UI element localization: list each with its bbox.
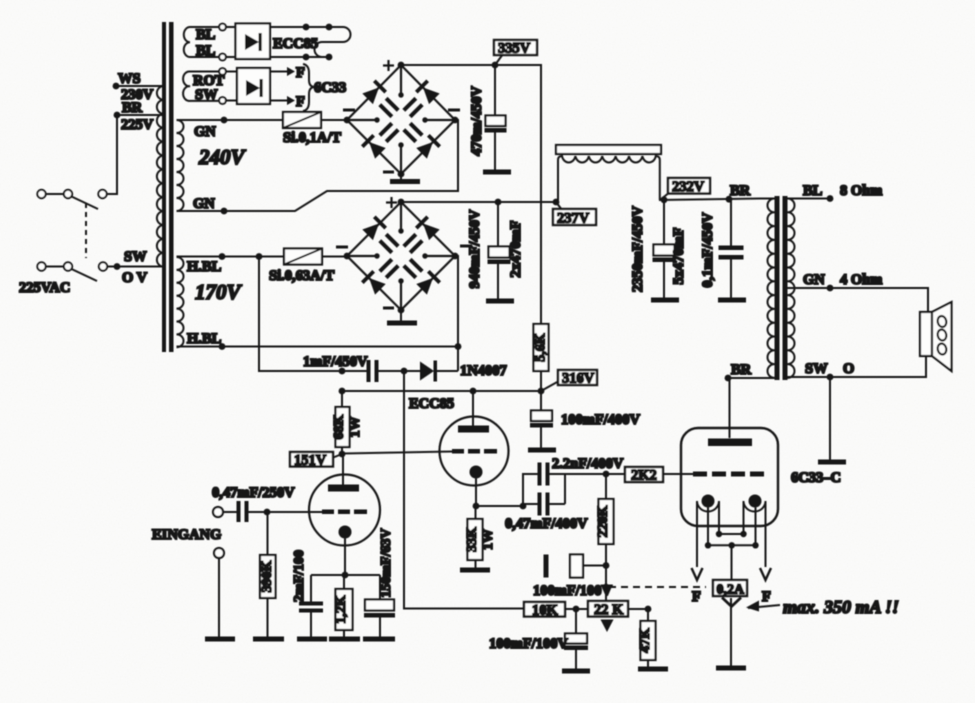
svg-text:100mF/100V: 100mF/100V [533,583,612,599]
heater winding BL/BL [184,27,222,59]
6C33 grid [663,472,764,477]
cathode leads [708,508,756,546]
svg-text:232V: 232V [672,179,705,195]
svg-text:BR: BR [731,362,752,378]
wire heater top [270,26,343,28]
svg-text:237V: 237V [557,211,590,227]
svg-text:2mF/100: 2mF/100 [292,550,307,602]
node 68K top [339,388,346,395]
capacitor 0,1mF/450V [700,200,744,299]
svg-text:2x470mF: 2x470mF [508,220,524,277]
heater feed arrow F bottom [270,94,305,110]
node [573,606,580,613]
svg-text:940mF/450V: 940mF/450V [467,209,483,288]
capacitor 2.2nF/400V [538,456,624,486]
terminal BL top [219,24,226,31]
transformer T1 primary winding 230V [157,86,164,267]
terminal ROT [219,68,226,75]
svg-text:F: F [296,65,305,81]
svg-text:1mF/450V: 1mF/450V [303,354,368,370]
svg-text:6C33: 6C33 [314,80,346,96]
svg-text:F: F [692,589,701,605]
ground input [205,637,235,642]
tap WS [113,71,163,103]
wire SW to ground [829,377,831,460]
capacitor 940mF/450V 2x470mF [467,202,524,299]
wire [226,26,236,28]
svg-text:0,1mF/450V: 0,1mF/450V [700,212,716,288]
resistor 390K [260,512,276,637]
ground 390K [253,637,284,642]
node [326,54,333,61]
node BR top [726,196,733,203]
6C33 cathode 1 [702,495,715,508]
svg-text:GN: GN [193,196,215,212]
svg-text:max. 350 mA !!: max. 350 mA !! [783,597,899,617]
mains switch S1 pole 1 [37,190,106,209]
tap BR bottom [725,362,775,381]
node [520,503,527,510]
svg-text:240V: 240V [198,145,247,169]
wire cathode rail V1a [311,574,380,576]
fuse F2 Si.0,63A/T [269,249,335,285]
label box 335V [494,40,537,65]
ground 940mF cap [486,299,514,304]
wire 237V rail [401,201,556,203]
tap GN top [177,117,284,140]
ground 100mF/400V [528,448,556,453]
svg-text:2.2nF/400V: 2.2nF/400V [552,456,624,472]
6C33 anode [708,439,752,447]
wire SW to speaker [830,356,926,377]
svg-text:335V: 335V [498,41,531,57]
ground 33K [460,568,490,573]
wire [226,71,237,73]
triode V1b envelope [440,417,509,486]
resistor 5,6K [534,324,549,391]
svg-text:BL: BL [196,43,216,59]
annotation arrow max current [746,597,899,617]
potentiometer 22K [588,601,628,632]
wire caps to grid rail [550,474,566,504]
wire to triode2 grid [342,452,452,454]
ECC85 heater jumper loop [315,27,351,57]
ground 0,1mF cap [718,298,746,303]
wire bias line [404,371,524,609]
wire cathode to coupling caps [476,505,523,507]
triode V1a grid [322,510,367,515]
triode V1b anode [458,391,489,433]
svg-text:F: F [762,589,771,605]
bridge rectifier B2 [336,197,472,313]
tap GN bottom [177,196,228,214]
resistor 1,2K [334,575,353,637]
svg-text:220K: 220K [596,505,611,537]
svg-text:316V: 316V [562,371,595,387]
node [342,572,349,579]
capacitor 470m/450V [469,65,507,170]
node 151V [339,451,346,458]
wire 4 Ohm to speaker [830,288,928,312]
wire rail to T2 primary top [760,198,775,200]
6C33 heater 1 [697,501,719,567]
svg-text:Si.0,1A/T: Si.0,1A/T [283,130,341,146]
svg-text:0,47mF/400V: 0,47mF/400V [505,516,588,532]
svg-text:GN: GN [803,272,825,288]
node triode2 anode [470,388,477,395]
node [661,196,668,203]
tap SW 0V [107,249,163,286]
choke L1 [556,145,661,202]
svg-text:Si.0,63A/T: Si.0,63A/T [269,268,335,284]
ground 100mF/100V lower [562,669,590,674]
label box 316V [541,370,597,391]
wire fuse2 node down to bias cap [259,257,367,372]
svg-text:6C33–C: 6C33–C [791,470,841,486]
ground 2mF [297,637,327,642]
svg-text:BL: BL [196,27,216,43]
svg-text:390K: 390K [260,560,275,592]
wire [379,370,421,372]
svg-text:1W: 1W [348,417,363,438]
svg-text:0,2A: 0,2A [717,583,746,598]
svg-text:2K2: 2K2 [631,468,657,484]
wire [226,100,237,102]
node [264,509,271,516]
heater feed arrow F top [270,65,305,81]
wire input gnd terminal down [218,558,220,638]
wire 232V rail [659,199,760,201]
heater arrow F left [692,568,703,605]
heater rectifier D2 (ECC85) [236,24,271,60]
svg-text:68K: 68K [332,414,347,439]
wire fuse to ground [730,598,732,666]
svg-text:47K: 47K [638,628,653,653]
svg-text:BL: BL [803,183,823,199]
svg-text:H.BL: H.BL [187,331,222,347]
svg-text:22 K: 22 K [594,602,624,618]
wire fuse2 to bridge2 [322,256,347,258]
capacitor 2mF/100 [292,550,323,637]
node cathode V1b [473,503,480,510]
resistor 2K2 [625,467,681,484]
svg-text:100mF/100V: 100mF/100V [489,636,568,652]
tap H.BL bottom [177,331,226,350]
ground 1,2K [329,637,360,642]
output transformer T2 core [775,196,788,380]
tap GN 4 Ohm [788,272,883,291]
node fuse2 input [256,253,263,260]
diode 1N4007 [420,361,507,382]
svg-text:0,47mF/250V: 0,47mF/250V [212,485,295,501]
resistor 47K [638,621,656,667]
node [339,368,346,375]
tap SW O [788,361,855,380]
bridge rectifier B1 [343,60,460,177]
svg-text:225VAC: 225VAC [19,280,70,296]
capacitor 0,47mF/400V [505,493,588,533]
svg-text:O: O [843,361,854,377]
tap BR 225V [114,100,163,133]
wire BR to 6C33 anode [729,378,731,438]
ground bridge B2 [387,310,417,326]
capacitor 0,47mF/250V [212,485,295,522]
ground 47K [638,667,668,672]
svg-text:33K: 33K [465,527,480,552]
T2 primary winding [767,199,774,378]
wire to grid [249,511,323,513]
wire fuse to bridge [321,119,347,121]
label box 237V [553,202,596,227]
svg-text:170V: 170V [195,280,243,304]
input terminal EINGANG hot [213,507,223,517]
resistor 220K [596,474,614,601]
node [495,199,502,206]
svg-text:ECC85: ECC85 [409,396,454,412]
node bias takeoff [401,368,408,375]
svg-text:BR: BR [122,100,143,116]
svg-text:BR: BR [730,183,751,199]
capacitor 100mF/100V upper [533,555,612,600]
svg-text:1W: 1W [481,529,496,550]
svg-text:SW: SW [124,249,147,265]
tube 6C33-C envelope [681,428,778,526]
6C33 heater 2 [744,501,766,567]
wire bridge B2 right to H.BL bottom [455,256,458,371]
capacitor 2350mF/450V 5x470mF [630,200,687,298]
node dashed [603,584,610,591]
mains switch S1 pole 2 [37,262,107,281]
heater rectifier D3 (6C33) [237,68,270,104]
resistor 10K [524,602,588,619]
tap BL 8 Ohm [788,183,883,202]
svg-text:150mF/63V: 150mF/63V [379,528,394,597]
input terminal EINGANG gnd [214,548,224,558]
resistor 33K 1W [465,506,496,568]
heater winding ROT/SW [183,71,225,103]
ground 6C33 cathode [716,666,746,671]
switch mechanical link [85,203,87,258]
svg-text:1N4007: 1N4007 [460,363,507,379]
label box 151V [290,452,342,469]
triode V1b grid [452,449,497,454]
transformer T1 secondary 170V winding [177,257,243,347]
capacitor 100mF/400V [530,391,640,448]
triode V1a anode [328,454,359,492]
wire top rail 335V [401,65,541,324]
tap H.BL top [177,253,285,275]
svg-text:WS: WS [118,71,141,87]
node [303,54,310,61]
wire heater bottom [270,56,322,58]
6C33 cathode 2 [749,495,762,508]
brace 6C33 [303,64,346,111]
svg-text:SW: SW [195,87,218,103]
node 335V [492,62,499,69]
svg-text:SW: SW [805,361,828,377]
triode V1a envelope [309,475,380,546]
svg-text:8 Ohm: 8 Ohm [840,183,882,199]
dashed wire to heater fuse [609,586,706,588]
T2 secondary winding [788,199,795,378]
node [455,343,462,350]
wire BR tap to switch [107,115,117,194]
heater arrow F right [760,568,771,605]
svg-text:EINGANG: EINGANG [152,527,221,543]
wire [523,503,565,505]
transformer T1 secondary 240V winding [177,120,247,211]
node [303,24,310,31]
fuse 0,2A [713,580,747,598]
capacitor 1mF/450V [303,354,379,382]
svg-text:225V: 225V [121,117,154,133]
svg-text:4 Ohm: 4 Ohm [840,272,882,288]
fuse F1 Si.0,1A/T [283,112,341,146]
ground 470m cap [483,170,511,175]
node bias cap [603,562,610,569]
node 237V [553,199,560,206]
wire B+ rail 316V [342,390,541,392]
terminal BL bottom [219,54,226,61]
svg-text:H.BL: H.BL [187,259,222,275]
speaker LS [920,302,952,371]
svg-text:5,6K: 5,6K [534,333,549,362]
svg-text:1,2K: 1,2K [334,595,349,624]
svg-text:10K: 10K [532,603,559,619]
node 316V [538,388,545,395]
wire H.BL bottom to diode node [222,346,458,348]
wire [523,474,538,506]
fuse output chevron [722,598,741,607]
capacitor 100mF/100V lower [489,609,588,669]
svg-text:151V: 151V [294,453,327,469]
svg-text:F: F [296,94,305,110]
wire to fuse [731,545,733,580]
svg-text:5x470mF: 5x470mF [671,227,687,284]
ground bridge B1 [390,174,420,184]
transformer T1 core [162,22,174,352]
node [645,606,652,613]
svg-text:O V: O V [122,270,148,286]
svg-text:2350mF/450V: 2350mF/450V [630,205,646,292]
wire [223,511,237,513]
svg-text:ECC85: ECC85 [273,36,318,52]
triode V1a cathode [339,526,352,576]
cathode rail [705,542,759,548]
triode V1b cathode [470,466,483,507]
terminal SW [219,97,226,104]
resistor 68K 1W [332,391,363,454]
node 220K top [603,471,610,478]
wire [226,56,236,58]
ground SW/O [818,460,846,465]
wire GN bottom to bridge B1 right [224,120,458,211]
svg-text:470m/450V: 470m/450V [469,85,485,156]
svg-text:GN: GN [194,124,216,140]
svg-text:100mF/400V: 100mF/400V [561,412,640,428]
ground 150mF [363,637,395,642]
heater rail [716,531,747,537]
ground 2350mF cap [651,298,679,303]
node [326,24,333,31]
label box 232V [660,178,710,200]
wire grid rail [565,473,625,475]
capacitor 150mF/63V [364,528,395,637]
wire 22K to 47K [628,609,648,621]
